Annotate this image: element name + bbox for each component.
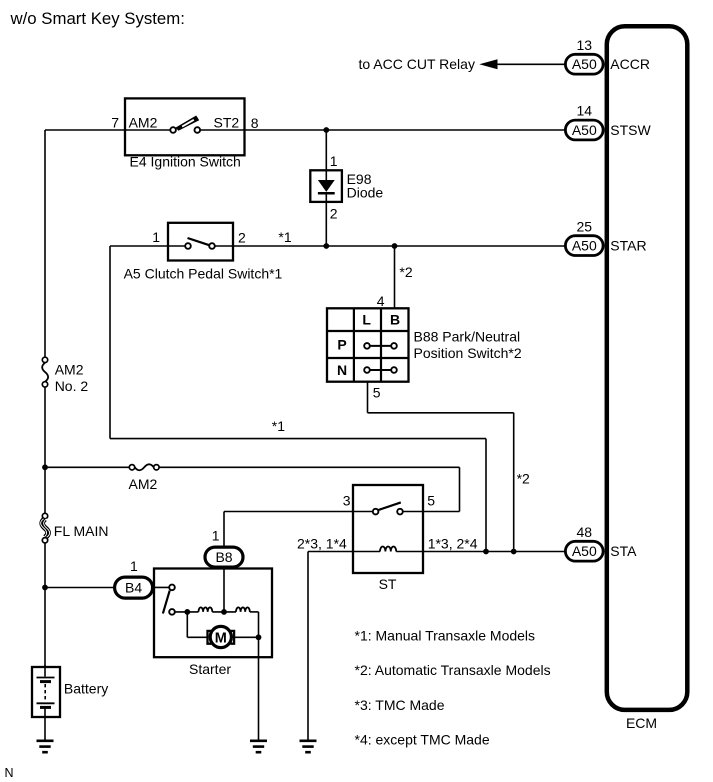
svg-text:B: B (390, 312, 400, 328)
svg-text:STSW: STSW (610, 122, 651, 138)
clutch pedal switch A5 box (168, 223, 233, 261)
wire: B4 to starter switch (153, 586, 170, 588)
B88 N row contact bar (367, 369, 394, 371)
B88 P row contact circle left (364, 343, 370, 349)
diode cathode bar (318, 192, 335, 195)
ignition switch contact circle right (195, 127, 201, 133)
junction dot rail/B4 (42, 585, 48, 591)
svg-text:L: L (362, 312, 371, 328)
svg-text:7: 7 (111, 114, 119, 130)
wire: diode branch upper (325, 130, 327, 170)
wire: B8 vertical upper (223, 512, 225, 547)
wire: ST coil row left (308, 551, 380, 553)
wire: B88 out horizontal (368, 412, 514, 414)
svg-text:No. 2: No. 2 (55, 378, 89, 394)
B88 P row contact bar (367, 345, 394, 347)
svg-text:8: 8 (251, 115, 259, 131)
svg-text:P: P (337, 337, 346, 353)
svg-text:2: 2 (238, 230, 246, 246)
B88 N row contact circle right (391, 367, 397, 373)
ground symbol under starter (250, 741, 267, 752)
svg-text:ECM: ECM (626, 715, 657, 731)
svg-text:A50: A50 (572, 543, 597, 559)
wire: clutch switch inside right (215, 245, 233, 247)
wire: clutch pin1 left (110, 245, 168, 247)
wire: ST coil row right (396, 551, 564, 553)
diode E98 box (310, 170, 342, 202)
wire: *1 long horizontal (110, 438, 486, 440)
svg-text:*2: *2 (517, 471, 530, 487)
junction dot starter B8 (221, 609, 227, 615)
wire: ACC CUT relay arrow line (495, 63, 565, 65)
fuse AM2 left circle (129, 465, 134, 470)
wire: AM2 line right segment (159, 466, 459, 468)
svg-text:13: 13 (577, 37, 593, 53)
svg-text:A50: A50 (572, 122, 597, 138)
ignition switch contact circle left (170, 127, 176, 133)
junction dot motor right (256, 634, 262, 640)
wire: *1 down to STA (485, 439, 487, 552)
ST relay box (353, 485, 423, 573)
wire: inside diode box (325, 170, 327, 181)
wire: battery to ground (44, 709, 46, 741)
wire: AM2 line left segment (45, 466, 129, 468)
wire: inside ST right (403, 511, 423, 513)
connector B4 oval (115, 577, 153, 598)
fuse AM2 No.2 bottom circle (42, 382, 47, 387)
junction dot rail/AM2 (42, 464, 48, 470)
ST contact circle left (373, 509, 379, 515)
wire: inside ignition switch right (200, 129, 244, 131)
ECM box (607, 26, 688, 710)
junction dot diode bottom (323, 243, 329, 249)
svg-text:A5 Clutch Pedal Switch*1: A5 Clutch Pedal Switch*1 (124, 265, 283, 281)
wire: inside ignition switch left (125, 129, 170, 131)
wire: B88 pin5 down (367, 382, 369, 413)
wire: coil2 to right corner (250, 611, 259, 613)
svg-text:*3: TMC Made: *3: TMC Made (355, 697, 445, 713)
arrowhead to ACC CUT Relay (479, 59, 497, 69)
svg-text:M: M (215, 630, 227, 646)
svg-text:*1: Manual Transaxle Models: *1: Manual Transaxle Models (355, 628, 536, 644)
FL MAIN top circle (42, 513, 47, 518)
wire: ignition switch pin8 to STSW (245, 129, 565, 131)
svg-text:STA: STA (610, 543, 637, 559)
svg-text:to ACC CUT Relay: to ACC CUT Relay (359, 56, 475, 72)
svg-text:B8: B8 (215, 549, 232, 565)
svg-text:AM2: AM2 (55, 362, 84, 378)
wire: starter left down (186, 612, 188, 637)
fuse AM2 wavy element (135, 464, 154, 470)
svg-text:Starter: Starter (189, 661, 231, 677)
wire: clutch switch to STAR (233, 245, 565, 247)
FL MAIN bottom circle (42, 538, 47, 543)
wire: inside ST left (353, 511, 373, 513)
starter coil 2 (236, 607, 250, 612)
svg-text:w/o Smart Key System:: w/o Smart Key System: (10, 9, 185, 28)
wire: into ST pin5 (423, 511, 460, 513)
wire: between coils (212, 611, 236, 613)
ST coil (380, 547, 396, 552)
connector B8 oval (205, 547, 243, 567)
svg-text:N: N (337, 362, 347, 378)
FL MAIN fusible link element (42, 519, 48, 538)
svg-text:Position Switch*2: Position Switch*2 (414, 345, 522, 361)
wire: diode branch lower (325, 202, 327, 246)
wire: starter switch to coil junction (175, 611, 199, 613)
junction dot starter left (184, 609, 190, 615)
wire: ST coil left down to ground (307, 552, 309, 741)
battery plate long top (37, 677, 55, 679)
svg-text:2*3, 1*4: 2*3, 1*4 (297, 536, 347, 552)
B88 P row contact circle right (391, 343, 397, 349)
junction dot *1/STA (483, 549, 489, 555)
svg-text:AM2: AM2 (129, 476, 158, 492)
svg-text:1: 1 (130, 558, 138, 574)
svg-text:Battery: Battery (64, 681, 108, 697)
svg-text:*1: *1 (272, 418, 285, 434)
wire: right corner down (258, 612, 260, 637)
starter switch blade (163, 591, 170, 614)
svg-text:AM2: AM2 (129, 114, 158, 130)
connector A50 pin 14 (STSW) (565, 103, 651, 140)
starter box (154, 569, 272, 658)
svg-text:E4 Ignition Switch: E4 Ignition Switch (130, 154, 241, 170)
svg-text:FL MAIN: FL MAIN (54, 523, 109, 539)
junction dot diode top (323, 127, 329, 133)
wire: B8 top to ST pin3 (224, 511, 353, 513)
ground symbol center-right (300, 741, 317, 752)
ground symbol under battery (37, 741, 54, 752)
junction dot B88/STA (511, 549, 517, 555)
diode symbol triangle (318, 180, 335, 192)
motor right bracket (230, 631, 234, 644)
starter coil 1 (199, 607, 213, 612)
B88 N row contact circle left (364, 367, 370, 373)
svg-text:ST: ST (379, 576, 397, 592)
motor M circle (210, 626, 231, 647)
wire: clutch switch inside left (168, 245, 185, 247)
svg-text:48: 48 (577, 524, 593, 540)
svg-text:*2: *2 (399, 264, 412, 280)
wire: left rail middle (44, 387, 46, 513)
svg-text:1*3, 2*4: 1*3, 2*4 (428, 536, 478, 552)
svg-text:3: 3 (343, 492, 351, 508)
ST contact circle right (397, 509, 403, 515)
ST switch blade (378, 502, 400, 510)
wire: left rail lower (44, 543, 46, 667)
svg-text:5: 5 (427, 492, 435, 508)
wire: B88 branch vertical (394, 246, 396, 308)
svg-text:1: 1 (152, 229, 160, 245)
wire: motor right (235, 636, 259, 638)
battery plate long bottom (37, 702, 55, 704)
svg-text:STAR: STAR (610, 238, 646, 254)
clutch switch blade (188, 238, 210, 245)
connector A50 pin 48 (STA) (565, 524, 637, 561)
wire: clutch branch down (109, 246, 111, 439)
wire: left rail to ignition switch (45, 129, 125, 131)
svg-text:B88 Park/Neutral: B88 Park/Neutral (414, 329, 521, 345)
fuse AM2 right circle (154, 465, 159, 470)
clutch switch contact circle right (209, 243, 215, 249)
clutch switch contact circle left (185, 243, 191, 249)
svg-text:B4: B4 (125, 580, 142, 596)
wire: rail into battery (44, 665, 46, 677)
svg-text:1: 1 (212, 528, 220, 544)
svg-text:*4: except TMC Made: *4: except TMC Made (355, 731, 490, 747)
fuse AM2 No.2 top circle (42, 357, 47, 362)
battery plate short top (40, 680, 51, 683)
ignition switch key blade (176, 116, 200, 131)
connector A50 pin 13 (ACCR) (565, 37, 650, 74)
B88 park/neutral switch box grid (327, 308, 409, 381)
battery box (32, 667, 60, 717)
wire: to motor left (187, 636, 207, 638)
motor left bracket (208, 631, 212, 644)
ignition switch E4 box (125, 98, 245, 155)
wire: rail to B4 (45, 587, 114, 589)
fuse AM2 No.2 wavy element (42, 363, 48, 382)
battery plate short bottom (40, 706, 51, 709)
svg-text:N: N (5, 766, 14, 780)
connector A50 pin 25 (STAR) (565, 219, 646, 256)
wire: AM2 down to ST pin5 (459, 467, 461, 511)
svg-text:14: 14 (577, 103, 593, 119)
wire: B8 vertical lower (223, 567, 225, 612)
svg-text:Diode: Diode (347, 184, 384, 200)
svg-text:4: 4 (377, 293, 385, 309)
battery dashed link (44, 684, 46, 701)
svg-text:*2: Automatic Transaxle Models: *2: Automatic Transaxle Models (355, 662, 551, 678)
svg-text:1: 1 (330, 153, 338, 169)
svg-text:5: 5 (373, 385, 381, 401)
starter switch contact circle bottom (169, 609, 175, 615)
wire: starter down to ground (258, 637, 260, 740)
svg-text:ST2: ST2 (214, 114, 240, 130)
svg-text:2: 2 (330, 206, 338, 222)
junction dot B88 branch (392, 243, 398, 249)
svg-text:*1: *1 (278, 229, 291, 245)
starter switch contact circle top (169, 585, 175, 591)
wire: B88 out down to STA (513, 413, 515, 552)
svg-text:ACCR: ACCR (610, 56, 650, 72)
svg-text:A50: A50 (572, 56, 597, 72)
wire: left rail upper (44, 130, 46, 357)
svg-text:25: 25 (577, 219, 593, 235)
svg-text:A50: A50 (572, 238, 597, 254)
